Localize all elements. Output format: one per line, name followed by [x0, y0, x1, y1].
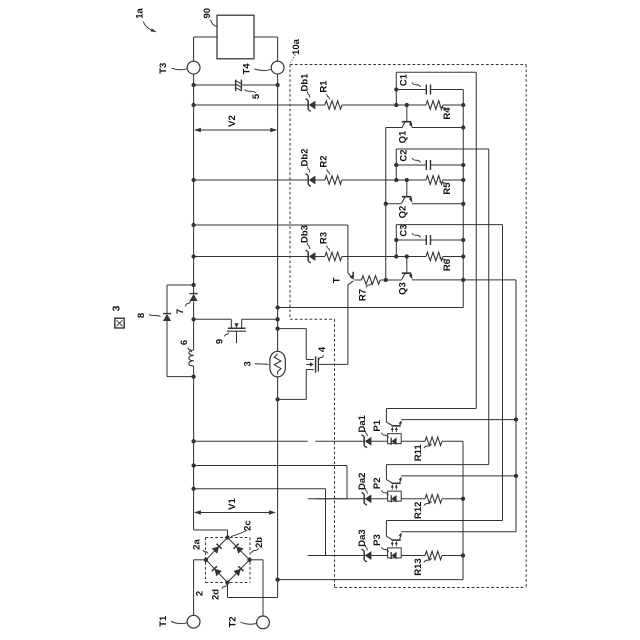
- leader for R5: [440, 181, 448, 185]
- svg-text:Da2: Da2: [357, 473, 368, 490]
- svg-text:Q1: Q1: [397, 130, 408, 143]
- leader for R7: [366, 283, 372, 288]
- junction dots on right rail: [461, 125, 465, 282]
- wire Q3 emitter to feedback corner: [412, 280, 516, 532]
- leader for P2: [382, 490, 389, 495]
- svg-text:R13: R13: [413, 558, 424, 575]
- diode 8: [163, 314, 171, 321]
- svg-text:C1: C1: [398, 73, 409, 86]
- diode 7: [190, 294, 198, 301]
- svg-text:5: 5: [251, 93, 262, 99]
- svg-text:T4: T4: [241, 63, 252, 75]
- leader for 4: [319, 355, 324, 360]
- leader for 8: [149, 315, 161, 317]
- leader for 10a: [291, 55, 296, 63]
- wire rung jog to Da2 row: [194, 466, 347, 499]
- lamp 3 (load): [270, 351, 285, 377]
- leader for R12: [424, 501, 432, 506]
- zener diode Da3: [362, 549, 372, 562]
- resistor R6: [396, 252, 463, 261]
- leader for Da3: [366, 545, 368, 551]
- svg-text:R11: R11: [413, 444, 424, 462]
- svg-text:90: 90: [202, 8, 213, 19]
- leader for Da2: [366, 488, 368, 494]
- leader for R2: [327, 169, 330, 175]
- svg-text:Db3: Db3: [299, 225, 310, 243]
- wire feedback stage2 rail to P2: [386, 149, 488, 465]
- junction dots stage C2 left rail: [394, 163, 398, 182]
- leader arrow for 1a: [143, 22, 157, 33]
- wire rung Db1/R1 row: [194, 104, 397, 106]
- zener diode Db3: [306, 250, 316, 263]
- svg-text:7: 7: [175, 309, 186, 314]
- wire Q2 emitter to right rail: [412, 203, 463, 205]
- leader for T2: [241, 622, 257, 624]
- leader for Db1: [308, 92, 310, 98]
- wire T4 bus to MOSFET 4 drain: [278, 329, 307, 360]
- svg-text:R6: R6: [442, 259, 453, 271]
- zener diode Db1: [306, 99, 316, 112]
- optocoupler P1: [386, 409, 401, 445]
- wire Da2 row segments: [315, 498, 463, 500]
- transistor Q3: [402, 257, 413, 280]
- svg-text:2d: 2d: [211, 589, 222, 600]
- svg-text:R3: R3: [318, 232, 329, 244]
- svg-text:T: T: [331, 277, 342, 283]
- leader for 3: [255, 364, 269, 365]
- wire rung jog to Da3 row: [194, 489, 326, 556]
- wire MOSFET 4 source return: [278, 370, 307, 400]
- junction dots stage C3 right rail: [461, 254, 465, 258]
- resistor R4: [396, 101, 463, 110]
- svg-text:T1: T1: [158, 615, 169, 627]
- svg-text:2: 2: [194, 591, 205, 596]
- dashed boundary box 10a: [290, 65, 526, 588]
- wire T4 bus upper (T4 down to lamp 3): [277, 74, 279, 351]
- junction dot left bus y=319.3: [191, 317, 195, 321]
- svg-text:R5: R5: [442, 182, 453, 195]
- bridge diode 2b diode top-right: [234, 544, 244, 554]
- bridge diode 2d lower-right: [233, 566, 243, 576]
- junction dots bridge vertices: [204, 535, 252, 584]
- terminal T1: [187, 615, 200, 628]
- leader for R4: [440, 106, 448, 110]
- MOSFET 4: [306, 356, 318, 372]
- wire T4 to box 90: [254, 37, 278, 61]
- junction dot Q2 base node: [405, 178, 409, 182]
- svg-text:V2: V2: [227, 115, 238, 127]
- dimension arrow V2: [194, 128, 277, 133]
- wire P3 emitter: [401, 531, 516, 533]
- leader for T3: [172, 68, 187, 70]
- leader for P3: [382, 547, 389, 552]
- junction dots stage C1 right rail: [461, 103, 465, 107]
- MOSFET 9: [227, 319, 246, 343]
- optocoupler P3: [386, 521, 401, 560]
- junction dots stage C2 right rail: [461, 178, 465, 182]
- capacitor C1: [396, 85, 463, 95]
- wire left bus middle (diode 7 to coil 6): [193, 301, 195, 350]
- svg-text:P1: P1: [372, 419, 383, 431]
- wire left bus upper (T3 down to diode 7): [193, 74, 195, 293]
- dashed box around bridge 2: [206, 538, 251, 583]
- wire P1 emitter: [401, 419, 516, 421]
- wire top rail of stage C1: [396, 72, 476, 105]
- inductor coil 6: [189, 350, 194, 366]
- wire bridge right vertex to T2: [250, 560, 264, 616]
- wire Q1 emitter to right rail: [412, 127, 463, 129]
- wire bridge left vertex to T1: [194, 560, 206, 616]
- resistor R11: [425, 437, 442, 446]
- wire MOSFET 4 gate to T line: [318, 363, 348, 365]
- wire feedback stage1 rail to P1: [386, 72, 476, 408]
- leader for R6: [440, 258, 448, 262]
- svg-text:Da1: Da1: [357, 414, 368, 432]
- capacitor C3: [396, 235, 463, 245]
- capacitor C2: [396, 160, 463, 170]
- leader for C3: [412, 233, 421, 238]
- svg-text:P2: P2: [372, 477, 383, 489]
- svg-text:C2: C2: [398, 149, 409, 161]
- svg-text:C3: C3: [398, 224, 409, 236]
- leader for 7: [186, 301, 191, 307]
- terminal T4: [271, 61, 284, 74]
- component box 90: [217, 15, 254, 59]
- wire R7 to Q3: [380, 279, 402, 281]
- wire top rail of stage C3: [396, 225, 502, 257]
- trigger element T: [348, 272, 354, 365]
- wire rung to trigger T: [194, 225, 348, 273]
- zener diode Db2: [306, 174, 316, 187]
- svg-text:R1: R1: [318, 80, 329, 93]
- svg-text:9: 9: [215, 339, 226, 344]
- wire Da1 row segments: [315, 440, 463, 442]
- leader for R11: [424, 444, 432, 449]
- svg-text:3: 3: [111, 305, 123, 311]
- junction dot Q3 base node: [405, 254, 409, 258]
- wire T emitter to R7: [354, 279, 361, 281]
- svg-text:4: 4: [317, 346, 328, 352]
- leader for R13: [424, 558, 432, 563]
- junction dots on R right rail: [461, 497, 465, 558]
- wire T3 to box 90: [194, 37, 217, 61]
- wire feedback stage3 rail to P3: [386, 225, 502, 521]
- wire Da3 row segments: [315, 555, 463, 557]
- wire T4 bus lower (lamp 3 to bridge): [228, 377, 278, 598]
- svg-text:8: 8: [136, 313, 147, 318]
- leader for Db2: [308, 167, 310, 173]
- svg-text:P3: P3: [372, 534, 383, 546]
- junction dots on left bus lower: [191, 374, 195, 490]
- wire branch of diode 8: [167, 285, 194, 377]
- svg-text:V1: V1: [227, 497, 238, 509]
- terminal T3: [187, 61, 200, 74]
- wire right rail x=463 (C/R/Q common): [278, 90, 464, 308]
- bridge diode lower-left: [212, 566, 222, 576]
- svg-text:Da3: Da3: [357, 529, 368, 546]
- resistor R13: [425, 551, 442, 560]
- svg-text:Db2: Db2: [299, 149, 310, 167]
- resistor R5: [396, 176, 463, 185]
- svg-text:R12: R12: [413, 502, 424, 519]
- wire rung Db3/R3 row: [194, 256, 397, 258]
- svg-text:2c: 2c: [243, 520, 254, 531]
- wire P2 emitter: [401, 475, 516, 477]
- transistor Q2: [402, 180, 413, 203]
- zener diode Da2: [362, 492, 372, 505]
- figure label 図3: [115, 318, 124, 328]
- leader for P1: [382, 433, 389, 438]
- leader for T4: [255, 69, 271, 71]
- leader for 9: [225, 333, 229, 337]
- resistor R2: [325, 176, 342, 185]
- bridge diamond wires: [206, 538, 250, 583]
- resistor R1: [325, 101, 342, 110]
- junction dot Q1 base node: [405, 103, 409, 107]
- svg-text:3: 3: [243, 361, 254, 366]
- leader for 90: [211, 20, 217, 27]
- optocoupler P2: [386, 465, 401, 503]
- leader for R3: [327, 246, 330, 252]
- svg-text:Q3: Q3: [397, 282, 408, 295]
- svg-text:T3: T3: [158, 63, 169, 74]
- leader for Da1: [366, 431, 368, 437]
- resistor R12: [425, 494, 442, 503]
- leader for C2: [412, 158, 421, 163]
- leader for C1: [412, 83, 421, 88]
- leader for T1: [171, 622, 187, 624]
- junction dots on left bus upper: [191, 83, 195, 287]
- zener diode Da1: [362, 435, 372, 448]
- resistor R3: [325, 252, 342, 261]
- wire R11-R13 right rail: [278, 441, 463, 579]
- svg-text:R2: R2: [318, 155, 329, 167]
- wire rung component 5: [194, 84, 278, 86]
- terminal T2: [257, 616, 270, 629]
- wire top rail of stage C2: [396, 149, 488, 180]
- leader for Db3: [308, 243, 310, 249]
- junction dots on T4 bus upper: [275, 83, 279, 331]
- wire rung Db2/R2 row: [194, 179, 397, 181]
- wire rung to Da1: [194, 440, 308, 442]
- svg-text:R4: R4: [442, 107, 453, 120]
- junction dots stage C3 left rail: [394, 238, 398, 259]
- svg-text:T2: T2: [227, 616, 238, 627]
- junction dots on emitter feedback line: [514, 417, 518, 478]
- resistor R7: [361, 276, 380, 285]
- svg-text:10a: 10a: [291, 38, 302, 55]
- bridge diode 2a: [212, 544, 222, 554]
- leader for 2d: [222, 585, 227, 590]
- wire left bus lower (coil 6 to corner): [194, 366, 228, 538]
- leader for 2b: [252, 548, 259, 553]
- leader for R1: [327, 94, 330, 100]
- svg-text:1a: 1a: [135, 8, 146, 19]
- svg-text:6: 6: [179, 340, 190, 345]
- wire rung with MOSFET 9: [194, 318, 278, 320]
- leader for 6: [188, 348, 192, 353]
- surge absorber 5: [236, 80, 242, 91]
- wire Q collector tie line: [386, 128, 402, 281]
- dimension arrow V1: [194, 510, 276, 515]
- svg-text:Q2: Q2: [397, 206, 408, 219]
- junction dots stage C1 left rail: [394, 87, 398, 107]
- svg-text:2a: 2a: [192, 539, 203, 550]
- svg-text:Db1: Db1: [299, 73, 310, 92]
- leader for 2c: [231, 530, 248, 537]
- transistor Q1: [402, 105, 413, 128]
- junction dots on T4 bus lower: [275, 397, 279, 581]
- leader for 5: [245, 90, 257, 94]
- svg-text:2b: 2b: [254, 537, 265, 548]
- svg-text:R7: R7: [357, 289, 368, 301]
- leader for 2a: [203, 550, 208, 554]
- junction dots on collector tie line: [384, 202, 388, 282]
